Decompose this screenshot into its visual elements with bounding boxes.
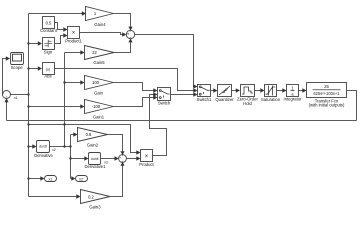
arrowhead Switch1 input 2 (193, 88, 197, 92)
arrowhead Switch1 input 1 (193, 84, 197, 88)
node junction bus A Sign tap (27, 42, 29, 44)
wire Derivative1 output to Sum2 (101, 158, 115, 160)
arrowhead Product1 input 2 (63, 33, 67, 37)
gain G5 triangle 22 (85, 46, 115, 66)
arrowhead SumX bottom input (4, 98, 8, 102)
arrowhead Integrator input (282, 88, 286, 92)
arrowhead Product input 1 (136, 150, 140, 154)
svg-text:Gain2: Gain2 (87, 143, 99, 148)
arrowhead Scope input (6, 56, 10, 60)
arrowhead Switch input 3 (153, 95, 157, 99)
svg-text:Derivative1: Derivative1 (85, 164, 107, 169)
svg-text:x3: x3 (104, 160, 108, 164)
node junction bus B Gain tap (63, 81, 65, 83)
arrowhead Gain3 input (76, 194, 80, 198)
svg-text:100: 100 (92, 80, 100, 85)
svg-text:(with initial outputs): (with initial outputs) (309, 103, 345, 108)
wire Gain3 output to Sum2 bottom (110, 166, 123, 197)
wire x2 goto tag feed (71, 178, 73, 180)
sum junction Sum1 (126, 30, 134, 38)
svg-text:Constant: Constant (40, 28, 58, 33)
wire Saturation to Integrator (277, 90, 284, 92)
wire Gain3 input feed (29, 196, 77, 198)
svg-text:×: × (145, 154, 149, 160)
wire Derivative1 input feed (71, 158, 86, 160)
derivative block du/dt (34, 141, 56, 158)
goto tag x2 (76, 176, 88, 182)
node junction bus A Abs tap (27, 67, 29, 69)
wire Sum2 output to Product input 2 (126, 158, 137, 160)
wire Sum1 output to Switch1 input 1 (135, 35, 194, 87)
node junction bus A x1 tag tap (27, 177, 29, 179)
arrowhead Sum2 left input (115, 156, 119, 160)
wire Gain output to Switch input 1 (114, 83, 155, 91)
wire Integrator to Transfer Fcn (299, 90, 304, 92)
wire Derivative input feed (29, 146, 34, 148)
svg-text:0.2: 0.2 (88, 195, 94, 200)
wire Switch1 to Quantizer (211, 90, 215, 92)
arrowhead Zero-Order Hold input (236, 88, 240, 92)
arrowhead Gain1 input (80, 104, 84, 108)
wire Gain1 output to Switch input 3 (114, 98, 155, 107)
saturation block (261, 85, 281, 102)
wire feedback vertical into SumX (6, 102, 8, 121)
arrowhead Derivative1 input (84, 156, 88, 160)
arrowhead Sum1 left input (122, 32, 126, 36)
wire Switch output to Switch1 input 3 (171, 94, 195, 96)
svg-text:Gain: Gain (94, 91, 104, 96)
wire Gain2 output to Sum2 top (108, 135, 123, 152)
arrowhead Sum1 top input (128, 27, 132, 31)
arrowhead Abs input (38, 66, 42, 70)
gain block G1 -100 (85, 100, 114, 120)
wire Zero-Order Hold to Saturation (255, 90, 262, 92)
svg-text:Integrator: Integrator (284, 97, 303, 102)
wire bus A vertical x1 distribution (28, 14, 30, 197)
arrowhead Switch1 input 3 (193, 92, 197, 96)
svg-text:625s²+100s+1: 625s²+100s+1 (313, 91, 340, 96)
wire Sign input feed (29, 43, 39, 45)
node junction x2 line derivative output (69, 145, 71, 147)
product block (139, 150, 154, 168)
svg-text:Hold: Hold (243, 101, 252, 106)
wire Transfer Fcn output down (347, 91, 357, 121)
svg-text:Switch1: Switch1 (197, 97, 212, 102)
node junction bus A Derivative tap (27, 145, 29, 147)
svg-text:du/dt: du/dt (39, 145, 47, 149)
svg-text:Gain1: Gain1 (93, 114, 105, 119)
sum junction SumX (2, 91, 17, 100)
svg-text:x2: x2 (79, 177, 83, 181)
gain block 100 (85, 76, 114, 96)
switch block (158, 88, 171, 106)
goto tag x1 (45, 176, 57, 182)
arrowhead Switch input 2 (153, 92, 157, 96)
wire x1 line to Product input 1 (29, 125, 138, 153)
svg-text:x1: x1 (48, 177, 52, 181)
wire Sign to Product1 input 2 (55, 36, 65, 44)
node junction bus A x1 line tap (27, 123, 29, 125)
scope block (11, 53, 24, 70)
gain block G3 0.2 (81, 190, 111, 210)
svg-text:x2: x2 (52, 148, 56, 152)
arrowhead Quantizer input (213, 88, 217, 92)
wire SumX output to bus A (11, 94, 29, 96)
svg-text:Product: Product (139, 162, 154, 167)
node junction bus B derivative line (63, 145, 65, 147)
arrowhead x1 goto input (40, 176, 44, 180)
wire Product1 output to Sum1 (80, 33, 123, 35)
transfer fcn block (307, 83, 347, 108)
integrator block 1/s (284, 85, 303, 102)
wire Gain2 input feed (71, 134, 75, 136)
svg-text:Abs: Abs (44, 74, 51, 79)
wire Gain4 output to Sum1 top (114, 14, 131, 27)
svg-text:Gain4: Gain4 (94, 22, 106, 27)
wire Gain5 input feed (65, 52, 82, 54)
wire bus A top to Gain4 input (29, 13, 83, 15)
svg-text:Gain5: Gain5 (93, 60, 105, 65)
gain block G2 0.8 (78, 128, 108, 148)
wire Gain input feed (65, 82, 82, 84)
node junction x2 line Derivative1 tap (69, 157, 71, 159)
constant block 0.5 (40, 17, 58, 34)
svg-text:×: × (72, 31, 76, 37)
svg-text:Scope: Scope (11, 65, 24, 70)
arrowhead Product1 input 1 (63, 27, 67, 31)
svg-text:Derivative: Derivative (34, 153, 53, 158)
svg-text:25: 25 (324, 84, 329, 89)
wire Abs input feed (29, 68, 39, 70)
svg-text:Gain3: Gain3 (89, 205, 101, 210)
gain G4 triangle (86, 7, 114, 28)
node junction bus A SumX output (27, 93, 29, 95)
product block Product1 (65, 27, 82, 44)
svg-text:0.5: 0.5 (46, 20, 52, 25)
arrowhead Saturation input (260, 88, 264, 92)
svg-text:Sign: Sign (44, 49, 53, 54)
svg-text:x1: x1 (14, 96, 18, 100)
svg-text:Saturation: Saturation (261, 97, 281, 102)
arrowhead Sign input (38, 41, 42, 45)
arrowhead Switch input 1 (153, 88, 157, 92)
svg-text:du/dt: du/dt (91, 157, 99, 161)
wire Derivative output (50, 146, 71, 148)
wire x1 goto tag feed (29, 178, 42, 180)
quantizer block (215, 85, 234, 102)
wire Constant to Product1 input 1 (55, 23, 65, 30)
wire Abs output to Switch1 input 2 (55, 69, 195, 91)
wire x2 vertical line (70, 135, 72, 179)
arrowhead Derivative input (32, 144, 36, 148)
wire Scope feed (3, 59, 7, 95)
switch block Switch1 (197, 85, 212, 102)
node junction bus A Gain1 tap (27, 105, 29, 107)
arrowhead Sum1 bottom input (128, 38, 132, 42)
node junction bus B x1 line (63, 123, 65, 125)
sum junction Sum2 (119, 155, 127, 163)
derivative block Derivative1 (85, 153, 108, 170)
svg-text:Quantizer: Quantizer (215, 97, 234, 102)
svg-text:|u|: |u| (46, 67, 50, 72)
wire Quantizer to Zero-Order Hold (232, 90, 237, 92)
arrowhead Product input 2 (136, 156, 140, 160)
zero-order hold block (237, 85, 258, 107)
arrowhead Gain2 input (73, 132, 77, 136)
sign block (43, 38, 55, 55)
arrowhead Sum2 bottom input (120, 162, 124, 166)
wire feedback horizontal (7, 120, 357, 122)
svg-text:0.8: 0.8 (86, 132, 92, 137)
arrowhead Gain input (80, 80, 84, 84)
arrowhead Transfer Fcn input (302, 88, 306, 92)
svg-text:-100: -100 (92, 104, 101, 109)
wire Product output loop to Switch input 2 (150, 95, 167, 156)
abs block (43, 63, 55, 79)
wire bus B vertical (64, 53, 66, 147)
wire Gain1 input feed (29, 106, 82, 108)
svg-text:22: 22 (92, 50, 97, 55)
arrowhead Gain5 input (80, 50, 84, 54)
wire Gain5 output to Sum1 bottom (114, 42, 131, 52)
arrowhead Sum2 top input (120, 151, 124, 155)
arrowhead x2 goto input (71, 176, 75, 180)
svg-text:Product1: Product1 (65, 39, 82, 44)
svg-text:Switch: Switch (158, 100, 171, 105)
arrowhead Gain4 input (82, 11, 86, 15)
